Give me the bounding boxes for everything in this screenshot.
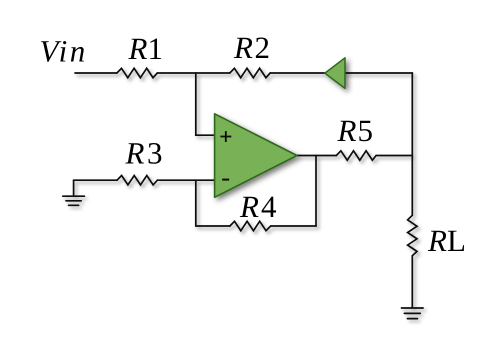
wire: op-amp output to R5: [296, 155, 336, 157]
svg-text:R2: R2: [233, 30, 270, 65]
op-amp U1 + input marker: [220, 131, 231, 142]
wire: R1 to R2 through node A junction: [157, 72, 230, 74]
resistor R1: [117, 68, 157, 77]
ground (right): [402, 308, 424, 319]
svg-text:R4: R4: [239, 189, 277, 224]
wire: node B feedback drop: [195, 180, 197, 226]
resistor R3: [117, 176, 157, 185]
wire: R2 to arrow tip: [270, 72, 325, 74]
resistor R4: [230, 221, 271, 230]
svg-text:RL: RL: [427, 223, 466, 258]
wire: node A drop to op-amp + input: [196, 73, 215, 135]
wire: right rail vertical: [411, 73, 413, 215]
ground (left): [63, 180, 85, 205]
wire: feedback bottom lead to R4: [196, 225, 230, 227]
wire: arrow to right rail: [345, 72, 412, 74]
svg-text:Vin: Vin: [40, 34, 88, 69]
wire: R3 to op-amp - input through node B junction: [157, 179, 215, 181]
wire: R5 to right rail: [376, 155, 412, 157]
arrow A1 (left-pointing buffer triangle): [325, 58, 345, 89]
wire: feedback riser to output node: [315, 156, 317, 227]
wire: R4 to feedback riser: [271, 225, 316, 227]
wire: left ground to R3: [74, 179, 117, 181]
wire: RL to right ground: [411, 256, 413, 308]
svg-text:R5: R5: [337, 113, 373, 148]
svg-text:R1: R1: [128, 31, 163, 66]
svg-text:R3: R3: [125, 135, 163, 170]
resistor R2: [230, 68, 270, 77]
resistor RL (vertical): [408, 215, 417, 255]
resistor R5: [336, 151, 376, 160]
op-amp U1 - input marker: [222, 179, 229, 181]
wire: Vin input lead: [75, 72, 117, 74]
op-amp U1: [215, 114, 297, 198]
